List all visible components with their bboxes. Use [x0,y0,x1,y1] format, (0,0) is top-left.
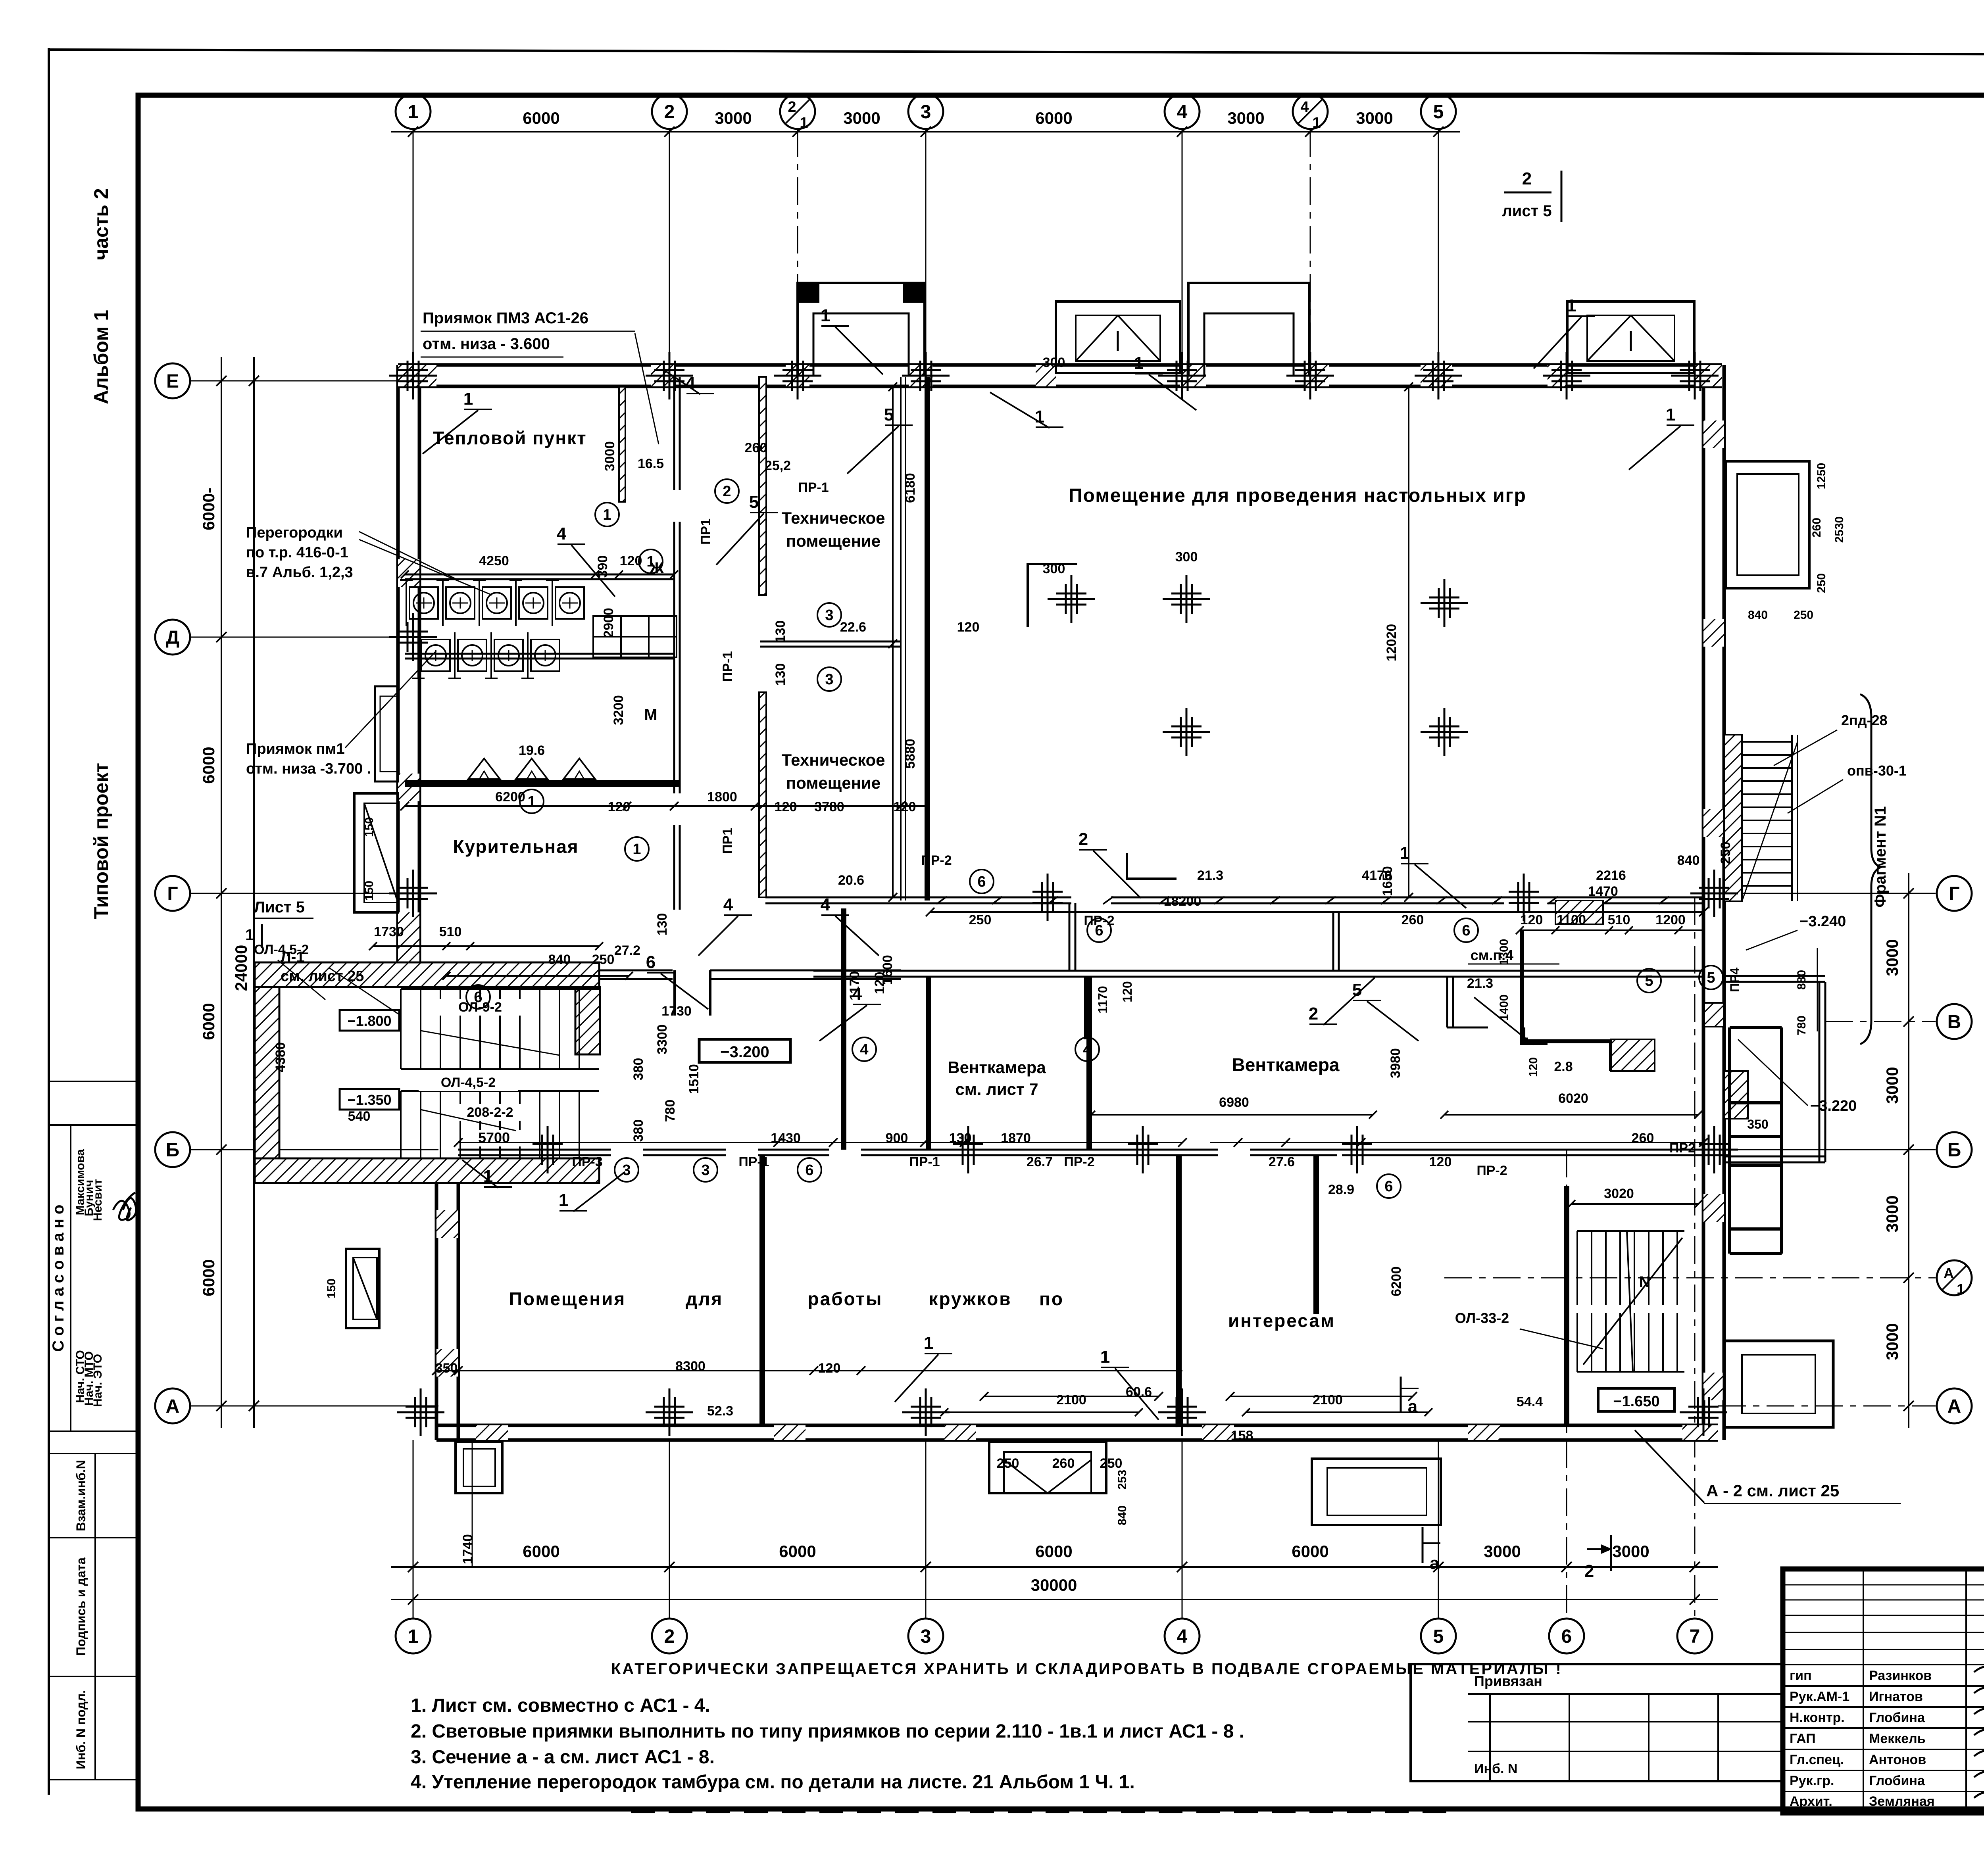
svg-text:150: 150 [325,1279,338,1298]
svg-text:250: 250 [997,1456,1019,1471]
svg-text:для: для [686,1288,723,1309]
svg-text:120: 120 [818,1361,841,1376]
stair block walls (hatched) [255,962,599,987]
svg-text:2100: 2100 [1313,1392,1343,1407]
svg-text:Техническое: Техническое [782,751,885,769]
extra bottom light well left [456,1442,502,1493]
axis circle Е left [155,363,190,398]
svg-text:Фрагмент N1: Фрагмент N1 [1872,806,1889,907]
left dimension chain [221,357,222,1428]
section mark a lower [1422,1527,1424,1563]
right side recess walls [1724,975,1825,977]
svg-text:120: 120 [1521,912,1543,927]
club rooms divider 3 [1313,1155,1319,1314]
svg-text:Типовой проект: Типовой проект [90,763,112,919]
light well window top (left of axis 4) [1056,301,1180,373]
svg-text:6180: 6180 [903,473,918,503]
svg-text:1740: 1740 [460,1534,475,1564]
svg-text:лист 5: лист 5 [1502,202,1551,220]
svg-text:6020: 6020 [1558,1091,1588,1106]
svg-text:4: 4 [557,524,567,543]
svg-text:Помещение для проведения на: Помещение для проведения настольных игр [1069,485,1526,506]
svg-text:1: 1 [245,926,254,944]
svg-text:1170: 1170 [1096,986,1110,1013]
svg-text:Г: Г [1949,883,1959,904]
dim line 6020 [1444,1114,1698,1116]
svg-text:Глобина: Глобина [1869,1773,1925,1788]
svg-text:3000: 3000 [1356,109,1393,127]
toilet north wall [405,574,674,576]
svg-text:Лист 5: Лист 5 [254,899,305,916]
svg-text:1: 1 [632,841,641,858]
svg-text:6000: 6000 [523,1542,559,1561]
svg-text:интересам: интересам [1228,1310,1335,1331]
exterior wall top [398,363,1722,367]
svg-text:6200: 6200 [495,789,525,805]
dim line 6980 [1091,1114,1373,1116]
masonry pier hatches [398,365,436,386]
left margin stamp table [49,1081,138,1082]
svg-text:отм. низа - 3.600: отм. низа - 3.600 [423,335,550,353]
svg-text:3. Сечение а - а см. лист: 3. Сечение а - а см. лист АС1 - 8. [411,1747,715,1768]
svg-text:1: 1 [1567,296,1576,315]
svg-text:120: 120 [1527,1057,1540,1077]
svg-text:3200: 3200 [611,695,626,725]
svg-text:1430: 1430 [771,1131,801,1146]
svg-text:250: 250 [1815,573,1828,593]
svg-text:840: 840 [548,952,571,967]
svg-text:840: 840 [1748,609,1768,622]
svg-text:гип: гип [1790,1668,1812,1683]
svg-text:ПР-1: ПР-1 [720,651,735,682]
svg-text:260: 260 [1052,1456,1075,1471]
svg-text:Помещения: Помещения [509,1288,626,1309]
svg-text:1: 1 [1100,1347,1110,1367]
svg-text:часть 2: часть 2 [90,188,112,260]
dim line games room 12020 [1408,387,1409,897]
svg-text:3000: 3000 [1883,1195,1901,1232]
stair lower flight treads [400,1091,402,1158]
svg-text:ПР-1: ПР-1 [738,1154,769,1169]
hatched segment of games south wall [1171,897,1369,899]
light well recess top (axis 4-4/1) [1188,283,1309,375]
priyamok PM1 fixture [375,686,398,782]
svg-text:−1.800: −1.800 [347,1013,391,1029]
light well left (list 5) [354,793,398,912]
dim line club rooms y3455 [436,1370,1182,1371]
section mark a bottom [1400,1377,1402,1412]
svg-text:3000: 3000 [1883,939,1901,976]
dim line club right y3520 [984,1396,1159,1397]
svg-text:1200: 1200 [1655,912,1686,927]
svg-text:Приямок пм1: Приямок пм1 [246,741,345,757]
svg-text:540: 540 [348,1109,371,1124]
svg-text:2530: 2530 [1833,517,1846,543]
svg-text:1: 1 [463,389,473,409]
svg-text:Н.контр.: Н.контр. [1790,1710,1845,1725]
axis circle В right [1937,1004,1972,1039]
svg-text:Д: Д [166,627,179,648]
svg-text:А: А [166,1396,180,1417]
svg-text:2: 2 [1584,1561,1594,1581]
svg-text:1: 1 [559,1191,568,1210]
svg-text:3: 3 [921,1626,931,1647]
svg-text:6: 6 [805,1162,813,1179]
svg-text:158: 158 [1231,1428,1253,1443]
svg-text:ПР-2: ПР-2 [921,853,952,868]
svg-text:16.5: 16.5 [638,456,664,471]
svg-text:Рук.АМ-1: Рук.АМ-1 [1790,1689,1849,1704]
svg-text:3: 3 [701,1162,709,1179]
svg-text:Гл.спец.: Гл.спец. [1790,1752,1844,1767]
svg-text:208-2-2: 208-2-2 [467,1105,513,1120]
axis circle 4 top [1165,94,1200,129]
svg-text:510: 510 [1608,912,1630,927]
svg-text:4: 4 [1177,1626,1188,1647]
top dimension chain [391,131,1460,132]
svg-text:А: А [1947,1396,1961,1417]
stair upper flight treads [400,989,402,1069]
svg-text:250: 250 [1794,609,1813,622]
svg-text:1730: 1730 [661,1004,692,1019]
insulation triangles [468,758,500,779]
stair BR level box -1.650 [1598,1388,1674,1411]
svg-text:2: 2 [723,483,731,500]
svg-text:Г: Г [167,883,178,904]
svg-text:3980: 3980 [1388,1048,1403,1078]
svg-text:30000: 30000 [1031,1576,1077,1594]
svg-text:120: 120 [620,553,642,568]
stamp signatures [113,1192,135,1220]
svg-text:3020: 3020 [1604,1186,1634,1201]
svg-text:18200: 18200 [1164,894,1202,909]
axis circle А/1 right [1937,1260,1972,1295]
svg-text:28.9: 28.9 [1328,1182,1354,1197]
svg-text:4: 4 [1300,99,1309,115]
svg-text:1730: 1730 [374,924,404,939]
svg-text:27.6: 27.6 [1269,1154,1295,1169]
svg-text:1100: 1100 [1557,912,1586,927]
svg-text:8300: 8300 [675,1359,706,1374]
bottom dimension chain [391,1566,1718,1568]
svg-text:4380: 4380 [273,1042,288,1072]
outer sheet border left [48,48,50,1795]
axis circle 4/1 top [1293,94,1328,129]
svg-text:ГАП: ГАП [1790,1731,1816,1746]
connector wall x2700 [1069,903,1071,971]
svg-text:6: 6 [1462,922,1470,939]
svg-text:−1.350: −1.350 [347,1092,391,1108]
svg-text:ПР-2: ПР-2 [1064,1154,1094,1169]
svg-text:−3.200: −3.200 [720,1043,769,1061]
axis circle 7 bottom [1677,1619,1712,1653]
svg-text:1510: 1510 [686,1064,702,1094]
svg-text:ПР1: ПР1 [698,518,713,545]
axis circle 6 bottom [1549,1619,1584,1653]
svg-text:120: 120 [872,972,887,995]
svg-text:3000: 3000 [1883,1323,1901,1360]
svg-text:Перегородки: Перегородки [246,524,343,541]
svg-text:12020: 12020 [1384,624,1399,662]
svg-text:А: А [1944,1265,1954,1281]
svg-text:отм. низа -3.700 .: отм. низа -3.700 . [246,760,371,777]
smoking room north wall [405,780,681,787]
svg-text:Курительная: Курительная [453,836,579,857]
axis circle Б right [1937,1132,1972,1167]
svg-text:1: 1 [646,553,655,570]
light well bottom 1 [989,1442,1106,1493]
svg-text:см. лист 7: см. лист 7 [955,1080,1038,1098]
axis circle Г right [1937,876,1972,911]
stair BR diagonal [1583,1238,1682,1365]
svg-text:52.3: 52.3 [707,1404,733,1419]
svg-text:ОЛ-33-2: ОЛ-33-2 [1455,1310,1509,1326]
svg-text:6: 6 [1561,1626,1572,1647]
club rooms divider 1 [759,1155,765,1425]
exterior wall bottom [436,1424,1718,1427]
svg-text:6: 6 [474,989,482,1006]
toilet cubicles row 2 [421,639,450,671]
svg-text:Инб. N подл.: Инб. N подл. [74,1690,88,1769]
svg-text:1: 1 [527,793,536,810]
exterior wall left upper [396,365,400,962]
svg-text:1470: 1470 [1588,884,1618,899]
svg-text:ПР-3: ПР-3 [572,1154,602,1169]
svg-text:900: 900 [886,1131,908,1146]
svg-text:19.6: 19.6 [519,743,545,758]
svg-text:250: 250 [969,912,992,927]
svg-text:Архит.: Архит. [1790,1794,1832,1809]
svg-text:1: 1 [408,102,419,123]
svg-text:840: 840 [1116,1505,1129,1525]
toilet Ж/М divider [405,653,674,655]
svg-text:2: 2 [788,99,796,115]
svg-text:5: 5 [749,492,759,512]
axis circle 4 bottom [1165,1619,1200,1653]
dim line right 3020 [1571,1203,1698,1205]
signatures squiggles [1974,1667,1984,1682]
svg-text:1870: 1870 [1001,1131,1031,1146]
svg-text:3000: 3000 [602,441,617,471]
dim line smoking room [405,805,925,807]
vent chamber east stub [1446,977,1448,1027]
svg-text:Разинков: Разинков [1869,1668,1932,1683]
svg-text:6000: 6000 [199,1003,218,1040]
svg-text:ПР-1: ПР-1 [909,1154,940,1169]
svg-text:3000: 3000 [715,109,752,127]
svg-text:260: 260 [1401,912,1424,927]
svg-text:Подпись и дата: Подпись и дата [74,1557,88,1656]
right wall window well upper [1726,461,1809,588]
svg-text:4: 4 [1177,102,1188,123]
svg-text:N: N [1639,1273,1651,1291]
exterior wall left lower [435,1182,438,1440]
svg-text:1: 1 [1957,1281,1965,1297]
svg-text:7: 7 [1690,1626,1700,1647]
svg-text:кружков: кружков [929,1288,1011,1309]
svg-text:1800: 1800 [707,789,737,805]
svg-text:130: 130 [773,663,788,686]
axis circle А right [1937,1388,1972,1423]
dim line games room 18200 [930,911,1703,913]
svg-text:5: 5 [1433,102,1444,123]
svg-text:4: 4 [821,895,831,914]
svg-text:Земляная: Земляная [1869,1794,1935,1809]
svg-text:6: 6 [646,952,656,972]
svg-text:3: 3 [825,671,833,688]
svg-text:25,2: 25,2 [765,458,791,473]
svg-text:6000: 6000 [1035,109,1072,127]
games room west wall [900,377,902,901]
svg-text:Приямок ПМ3 АС1-26: Приямок ПМ3 АС1-26 [423,309,588,327]
bottom overall dimension 30000 [391,1599,1718,1600]
vertical axis lines [413,129,414,365]
axis circle Г left [155,876,190,911]
svg-text:ПР1: ПР1 [720,828,735,854]
horizontal axis lines [190,380,401,382]
svg-text:−3.220: −3.220 [1810,1098,1857,1114]
dim chain 2100 bottom [944,1411,1139,1413]
svg-text:130: 130 [655,913,670,936]
svg-text:−3.240: −3.240 [1799,913,1846,930]
svg-text:6: 6 [977,874,986,890]
svg-text:по: по [1039,1288,1064,1309]
svg-text:работы: работы [808,1288,883,1309]
svg-text:4: 4 [852,984,862,1004]
svg-text:260: 260 [1810,518,1823,538]
svg-text:а: а [1430,1553,1440,1573]
stair labels [436,999,524,1016]
stair BR treads [1576,1231,1578,1305]
svg-text:2пд-28: 2пд-28 [1841,712,1888,728]
svg-text:20.6: 20.6 [838,873,864,888]
svg-text:3000: 3000 [843,109,880,127]
svg-text:1300: 1300 [1498,939,1511,966]
svg-text:253: 253 [1116,1470,1129,1490]
svg-text:260: 260 [1632,1131,1654,1146]
svg-text:1: 1 [603,507,611,523]
svg-text:КАТЕГОРИЧЕСКИ ЗАПРЕЩАЕТСЯ: КАТЕГОРИЧЕСКИ ЗАПРЕЩАЕТСЯ ХРАНИТЬ И СКЛА… [611,1660,1563,1678]
axis circle Д left [155,620,190,655]
svg-text:2: 2 [1522,169,1532,188]
svg-text:Рук.гр.: Рук.гр. [1790,1773,1834,1788]
svg-text:2100: 2100 [1056,1392,1086,1407]
svg-text:840: 840 [1677,853,1700,868]
svg-text:5: 5 [1707,970,1715,986]
svg-text:24000: 24000 [232,945,250,991]
dim line tech rooms vertical [892,387,894,897]
outer sheet border top [49,50,1984,56]
axis circle 2/1 top [780,94,815,129]
svg-text:6000: 6000 [1035,1542,1072,1561]
svg-text:4. Утепление перегородок т: 4. Утепление перегородок тамбура см. по … [411,1772,1135,1793]
toilet cubicles row 1 [409,587,438,619]
svg-text:6000: 6000 [523,109,559,127]
sink block [593,616,621,637]
svg-text:−1.650: −1.650 [1613,1393,1659,1410]
svg-text:120: 120 [1429,1154,1452,1169]
svg-text:4: 4 [860,1041,868,1058]
svg-text:2. Световые приямки выполн: 2. Световые приямки выполнить по типу пр… [411,1721,1244,1742]
svg-text:260: 260 [745,440,767,455]
svg-text:150: 150 [363,817,376,837]
walls near axis 6 (см.п.4) [1520,930,1524,1043]
svg-text:300: 300 [1043,355,1065,370]
svg-text:1: 1 [821,306,830,325]
svg-text:780: 780 [663,1100,678,1122]
svg-text:по т.р. 416-0-1: по т.р. 416-0-1 [246,544,348,561]
column cross markers [389,375,437,377]
title block outer [1783,1569,1984,1813]
dim line vent rooms y2880 [458,1142,1182,1143]
right annex walls [1728,1027,1731,1254]
partition tech room vertical [759,377,766,595]
dim lines stairblock [373,945,599,947]
svg-text:Меккель: Меккель [1869,1731,1926,1746]
left overall dimension 24000 [253,357,255,1428]
svg-text:Инб. N: Инб. N [1474,1761,1517,1776]
svg-text:6000: 6000 [199,1259,218,1296]
smoking south wall continuation [599,970,673,972]
club rooms north wall (axis Б) [458,1149,611,1151]
level box -3.200 [699,1039,790,1062]
axis circle А left [155,1388,190,1423]
vent chambers north wall [813,970,1703,972]
svg-text:880: 880 [1795,970,1808,990]
axis circle 5 bottom [1421,1619,1456,1653]
club rooms divider 2 [1176,1155,1182,1425]
svg-text:380: 380 [631,1058,646,1081]
svg-text:Е: Е [166,371,179,392]
svg-text:Взам.инб.N: Взам.инб.N [74,1460,88,1531]
light well recess top (axis 2/1-3) [798,283,925,375]
svg-text:250: 250 [1100,1456,1123,1471]
svg-text:опв-30-1: опв-30-1 [1847,762,1907,779]
external stair right [1724,735,1742,901]
svg-text:помещение: помещение [786,532,880,550]
fragment N1 brace [1860,694,1881,1044]
svg-text:М: М [644,706,657,724]
svg-text:150: 150 [363,881,376,901]
vertical dim 1740 left [472,1440,473,1567]
dim line right area y2330 [1520,929,1703,931]
svg-text:Антонов: Антонов [1869,1752,1926,1767]
svg-text:21.3: 21.3 [1467,976,1493,991]
svg-text:ПР-2: ПР-2 [1476,1163,1507,1178]
light well left lower [346,1249,379,1328]
svg-text:2: 2 [1079,830,1088,849]
svg-text:2: 2 [664,102,675,123]
svg-text:780: 780 [1795,1016,1808,1035]
svg-text:1: 1 [1666,405,1675,424]
corner L-marks games room [1028,564,1077,627]
svg-text:Несвит: Несвит [91,1179,104,1221]
svg-text:3300: 3300 [655,1024,670,1054]
svg-text:А - 2 см. лист 25: А - 2 см. лист 25 [1706,1481,1839,1500]
svg-text:ПР-2: ПР-2 [1084,913,1114,928]
section mark 2 bottom [1610,1535,1612,1571]
svg-text:Венткамера: Венткамера [1232,1054,1339,1075]
svg-text:в.7 Альб. 1,2,3: в.7 Альб. 1,2,3 [246,564,353,581]
axis circle 2 top [652,94,687,129]
svg-text:2: 2 [1309,1004,1318,1023]
light well window top (axis 6-7) [1567,301,1694,373]
svg-text:26.7: 26.7 [1027,1154,1053,1169]
svg-text:Б: Б [166,1140,180,1161]
svg-text:2.8: 2.8 [1554,1059,1573,1074]
svg-text:3: 3 [622,1162,631,1179]
svg-text:250: 250 [592,952,615,967]
